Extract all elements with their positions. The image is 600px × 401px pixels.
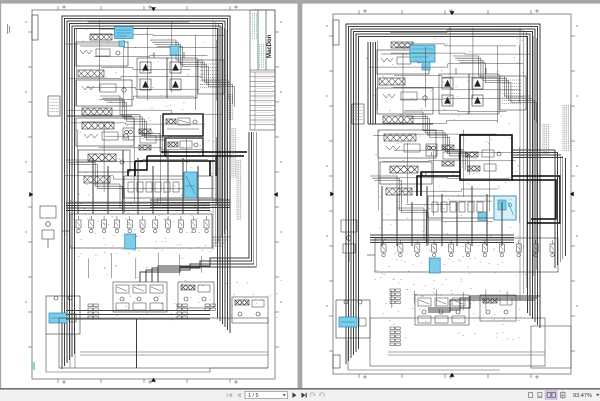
svg-text:1 / 5: 1 / 5 (248, 393, 259, 399)
svg-text:MacDon: MacDon (267, 34, 273, 58)
svg-text:93.47%: 93.47% (573, 393, 592, 399)
